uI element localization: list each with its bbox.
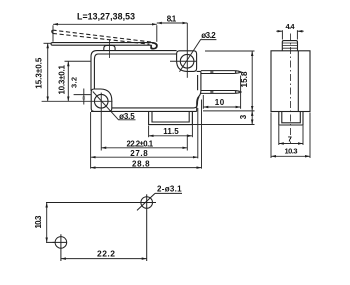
svg-text:ø3.5: ø3.5 [119,112,135,121]
dim 27.8 line [91,156,198,158]
leader of label 3.5 [93,92,136,120]
svg-text:3: 3 [239,114,248,119]
dim 10 line [203,106,240,108]
lower hole crosshair [53,234,67,261]
boss of hole 3.2 (top right) [177,51,197,72]
svg-text:7: 7 [288,135,292,144]
mounting hole lower left [55,237,67,249]
svg-text:22.2: 22.2 [97,248,115,258]
dim 10.3+-0.1 line [67,61,69,101]
dim 10.3 side right extension [309,113,311,159]
terminal pin 1 (upper) [201,71,241,74]
svg-text:15.8: 15.8 [240,71,249,88]
svg-text:27.8: 27.8 [130,149,148,158]
dim 11.5 left extension [148,126,150,138]
plunger button centerline [108,40,110,58]
dim 10.3 bottom view line [46,203,48,243]
dim 22.2+-0.1 line [101,147,187,149]
svg-text:28.8: 28.8 [132,159,150,168]
side view cover seam [297,51,299,112]
svg-text:3.2: 3.2 [70,77,79,88]
terminal pin 2 (lower) [201,91,241,94]
hole 3.5 vertical crosshair + 22.2 extension [100,93,102,151]
dim 10.3 top extension from hole 3.2 center [65,60,92,62]
mounting hole upper right [141,197,153,209]
dim 4.4 left extension [281,30,283,39]
dim 10.3 side left extension [270,113,272,159]
svg-text:L=13,27,38,53: L=13,27,38,53 [77,12,135,22]
dim L / 8.1 shared extension (lever tip) [156,25,158,42]
dim 3 line [251,111,253,125]
dim 15.3 top extension [44,42,52,44]
dim 28.8 right extension [201,100,203,169]
hole 3.5 circle [94,94,108,108]
dim 28.8 line [91,167,202,169]
dim 22.2 right extension [186,135,188,151]
dim 15.8 top extension [205,50,255,52]
dim 7 right extension [302,126,304,145]
front view body outer outline [91,51,201,112]
lever arm solid [151,43,156,49]
dim 10.3 side line [271,155,310,157]
dim 3.2 line [83,89,85,105]
bottom step outer [149,111,193,124]
dim 27.8 left extension [90,112,92,169]
dim 7 left extension [278,126,280,145]
side view lower narrow section outer [279,112,303,126]
bottom view lower-left extension [46,241,55,243]
dim 7 line [279,143,303,145]
dim 8.1 line [157,22,188,24]
dim 10 right extension [240,76,242,109]
leader of label 3.2 [180,40,217,72]
svg-text:10.3: 10.3 [34,215,43,229]
svg-text:10.3±0.1: 10.3±0.1 [58,65,67,95]
dim 27.8 right extension [197,108,199,158]
side view plunger button [282,41,297,51]
side view lower narrow section inner [282,112,301,123]
svg-text:10: 10 [215,98,225,107]
dim 10 left extension [202,95,204,109]
dim 15.3 line [47,43,49,101]
front view body inner outline [94,54,199,108]
dim 15.8 bottom extension [203,110,255,112]
side view centerline [290,34,292,145]
dim 15.8 line [251,51,253,111]
hole 3.2 vertical extension / centerline [186,23,188,78]
svg-text:10.3: 10.3 [285,147,298,156]
dim L extension left [52,25,54,42]
dim 3.2 top extension [74,94,91,96]
svg-text:4.4: 4.4 [286,22,296,31]
plunger button front view [104,45,115,50]
svg-text:22.2±0.1: 22.2±0.1 [127,139,154,148]
svg-text:ø3.2: ø3.2 [201,31,216,40]
bottom step inner [152,111,189,122]
dim 11.5 right extension [191,112,193,138]
hole 3.2 circle [180,54,194,68]
dim 3 bottom extension [192,124,254,126]
hole 3.2 horizontal crosshair [170,60,196,62]
side view body [271,51,310,112]
boss of hole 3.5 (bottom left) [91,89,112,111]
dim 4.4 line with outside arrows [276,30,282,32]
shared bottom extension through hole 3.5 center [42,100,113,102]
dim 4.4 right extension [296,30,298,39]
dim 11.5 line [149,135,193,137]
bottom view top construction line [46,202,156,204]
svg-text:2-ø3.1: 2-ø3.1 [157,184,182,193]
dim 22.2 bottom view line [61,258,147,260]
svg-text:15.3±0.5: 15.3±0.5 [35,57,44,89]
leader of label 2-3.1 [137,193,155,210]
upper hole crosshair [146,194,148,261]
svg-text:8.1: 8.1 [167,14,177,23]
svg-text:11.5: 11.5 [163,127,179,136]
dim L line [53,23,157,25]
lever arm dashed (released position) [52,30,153,44]
